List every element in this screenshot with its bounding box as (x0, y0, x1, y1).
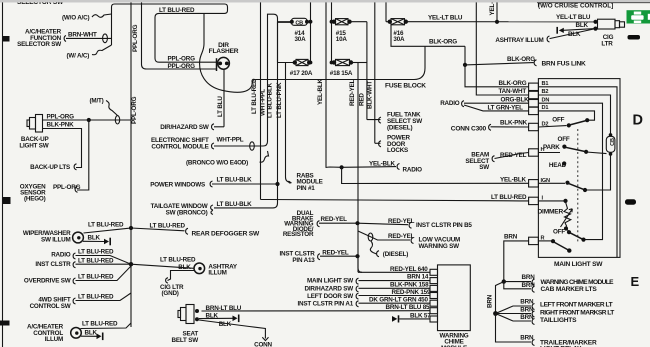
svg-text:(GND): (GND) (162, 290, 179, 297)
svg-text:BRN FUS LINK: BRN FUS LINK (542, 60, 587, 67)
(DIESEL) tap (370, 241, 408, 258)
svg-text:DK GRN-LT GRN 450: DK GRN-LT GRN 450 (369, 297, 428, 304)
pin IGN (529, 178, 550, 187)
dir/hazard sw (160, 124, 214, 131)
svg-text:BLK: BLK (219, 321, 232, 328)
pin H (529, 147, 545, 156)
pin B1 (529, 81, 549, 91)
node BLK-WHT bus (367, 2, 375, 143)
svg-text:RED-PNK 159: RED-PNK 159 (392, 289, 431, 296)
svg-text:SELECTOR SW: SELECTOR SW (17, 41, 61, 48)
fuse #14 30A label (295, 30, 307, 43)
node LT BLU-RED bus (251, 2, 261, 200)
svg-text:CONN C300: CONN C300 (451, 125, 487, 132)
fuse block outline (200, 13, 425, 92)
node RED-YEL bus (349, 63, 358, 273)
node RED bus (350, 22, 367, 119)
switch contact R (538, 239, 571, 253)
svg-text:RED-YEL: RED-YEL (349, 79, 356, 106)
svg-text:BRN-LT BLU: BRN-LT BLU (206, 305, 242, 312)
svg-text:RED-YEL: RED-YEL (322, 249, 349, 256)
wire power windows row (150, 176, 277, 188)
svg-text:POWER WINDOWS: POWER WINDOWS (150, 181, 205, 188)
svg-text:BLK: BLK (576, 22, 589, 29)
svg-text:D1: D1 (542, 105, 549, 111)
svg-text:LT BLU-RED: LT BLU-RED (78, 257, 114, 264)
node LT BLU-BLK bus (214, 22, 293, 208)
svg-text:DIMMER: DIMMER (538, 208, 564, 215)
circuit breaker CB (#14) (278, 18, 311, 26)
svg-text:BRN: BRN (504, 234, 518, 241)
svg-text:#18 15A: #18 15A (330, 70, 353, 77)
wire BLK seat belt to splice (199, 312, 240, 322)
pin chime 14 (430, 278, 438, 284)
pin chime 85 (430, 308, 438, 314)
svg-text:RED: RED (359, 93, 366, 106)
seat belt sw (172, 305, 199, 345)
svg-text:WARNING SW: WARNING SW (419, 243, 460, 250)
svg-text:(DIESEL): (DIESEL) (383, 251, 408, 258)
svg-text:BRN 14: BRN 14 (407, 274, 429, 281)
wire BLK-ORG to brn fus link (463, 46, 586, 67)
switch linkage (dashed) (577, 129, 579, 243)
wire inst clstr pin A13 row (280, 249, 358, 264)
svg-text:E: E (631, 274, 640, 289)
svg-text:ILLUM: ILLUM (45, 336, 63, 343)
svg-text:WARNING CHIME MODULE: WARNING CHIME MODULE (541, 279, 615, 286)
pin chime 640 (430, 269, 438, 275)
node YEL-BLK bus (317, 2, 326, 168)
wire IGN row (YEL-BLK) (342, 167, 529, 183)
svg-text:BLK: BLK (88, 235, 101, 242)
wire 4wd shift control sw row (30, 293, 131, 310)
fuse #17 20A (278, 59, 313, 76)
svg-text:OFF: OFF (553, 229, 565, 236)
fuse #15 10A (332, 19, 352, 43)
svg-text:FUSE BLOCK: FUSE BLOCK (385, 83, 426, 90)
svg-text:BACK-UP LTS: BACK-UP LTS (30, 164, 70, 171)
svg-text:BLK-PNK 158: BLK-PNK 158 (390, 282, 429, 289)
svg-text:RED-YEL: RED-YEL (388, 218, 415, 225)
svg-text:LT BLU-RED: LT BLU-RED (159, 7, 195, 14)
pin chime 159 (430, 293, 438, 299)
svg-text:BLK 57: BLK 57 (410, 312, 431, 319)
wire yel-blk to radio (326, 160, 422, 173)
svg-text:10A: 10A (336, 36, 348, 43)
node WHT-PPL bus (214, 14, 278, 146)
wire rear defogger sw row (84, 222, 260, 238)
svg-text:CONTROL MODULE: CONTROL MODULE (151, 144, 208, 151)
svg-text:BLK: BLK (568, 31, 581, 38)
lamp wiper/washer illum (23, 230, 84, 243)
svg-text:YEL-LT BLU: YEL-LT BLU (556, 14, 591, 21)
node junction back-up/ppl-org (87, 118, 91, 122)
wire PPL-ORG lower to flasher (142, 0, 217, 70)
svg-text:LEFT FRONT MARKER LT: LEFT FRONT MARKER LT (540, 302, 613, 309)
pin R (529, 236, 545, 245)
svg-text:LEFT DOOR SW: LEFT DOOR SW (307, 293, 353, 300)
svg-text:RED-YEL 640: RED-YEL 640 (390, 266, 428, 273)
svg-text:REAR DEFOGGER SW: REAR DEFOGGER SW (192, 230, 260, 237)
wire BRN to right front marker lt (496, 306, 615, 317)
wire to oxygen sensor (53, 120, 89, 192)
wire DK GRN-LT GRN 450 (298, 297, 431, 308)
svg-text:LT BLU-BLK: LT BLU-BLK (217, 176, 253, 183)
wire B2 row (TAN-WHT) (476, 0, 528, 95)
svg-text:(M/T): (M/T) (90, 98, 104, 105)
svg-text:PPL-ORG: PPL-ORG (132, 24, 139, 52)
wire B1 row (BLK-ORG) (465, 65, 529, 87)
warning chime module box (438, 265, 471, 347)
wire power door locks (375, 135, 411, 154)
svg-text:OFF: OFF (552, 117, 564, 124)
print button (627, 10, 650, 23)
svg-text:YEL-LT BLU: YEL-LT BLU (428, 14, 463, 21)
node LT BLU-PNK bus (276, 63, 292, 183)
wire D1 row (LT GRN-YEL) (464, 104, 529, 111)
svg-text:LT BLU-RED: LT BLU-RED (78, 273, 114, 280)
wire PPL-ORG from back-up sw (43, 113, 132, 124)
wire fuel tank select sw (367, 112, 422, 132)
svg-text:SW: SW (479, 164, 489, 171)
pin D1 (529, 105, 549, 114)
wire B1 internal (538, 87, 617, 258)
svg-text:INST CLSTR PIN B5: INST CLSTR PIN B5 (416, 222, 472, 229)
svg-text:BRN-WHT: BRN-WHT (68, 31, 97, 38)
svg-text:PIN #1: PIN #1 (297, 185, 316, 192)
oxygen sensor (HEGO) (20, 183, 46, 202)
svg-text:ASHTRAY ILLUM: ASHTRAY ILLUM (495, 37, 543, 44)
svg-text:LT BLU-RED: LT BLU-RED (88, 222, 124, 229)
svg-text:YEL-BLK: YEL-BLK (317, 78, 324, 105)
svg-text:BLK-ORG: BLK-ORG (499, 80, 527, 87)
svg-text:LOCKS: LOCKS (387, 147, 408, 154)
svg-text:(HEGO): (HEGO) (24, 196, 46, 203)
wire BRN to left front marker lt (496, 299, 613, 314)
svg-text:OFF: OFF (558, 136, 570, 143)
wire BRN-LT BLU 85 (from seat belt sw) (202, 304, 431, 311)
switch contact IGN (538, 181, 587, 193)
A/C/heater function selector sw (17, 29, 66, 49)
pin D2 (529, 122, 549, 131)
wire BRN to taillights (496, 314, 578, 325)
node junction B5 (355, 221, 359, 225)
svg-text:BRN: BRN (522, 282, 536, 289)
svg-text:BLK: BLK (206, 312, 219, 319)
dimmer rheostat (538, 199, 573, 231)
svg-text:LT BLU-RED: LT BLU-RED (78, 293, 114, 300)
wire BRN main vertical (487, 282, 504, 314)
wire YEL-LT BLU (406, 14, 596, 22)
node YEL- riser (489, 2, 499, 24)
wire DN row (ORG-BLK) (464, 96, 529, 103)
wire BLK-PNK 158 (305, 282, 430, 293)
wire D2 row (BLK-PNK) conn C300 (451, 120, 529, 133)
svg-text:LT BLU-RED: LT BLU-RED (78, 248, 114, 255)
wire LT BLU-RED labeled rail (155, 7, 217, 62)
wire BLK a/c heater to splice (81, 330, 104, 341)
wire BLK to splice (556, 22, 595, 34)
svg-text:(DIESEL): (DIESEL) (387, 124, 412, 131)
back-up lts (30, 164, 76, 171)
svg-text:LT BLU-BLK: LT BLU-BLK (267, 82, 274, 118)
svg-text:RADIO: RADIO (440, 100, 460, 107)
wire BRN from R pin (504, 234, 529, 282)
svg-text:BRN: BRN (520, 299, 534, 306)
switch contact D2/OFF (538, 117, 589, 128)
svg-text:BRN-LT BLU 85: BRN-LT BLU 85 (386, 304, 431, 311)
wire #15/#18 left riser (330, 2, 334, 64)
wire CB right riser (309, 2, 313, 64)
svg-text:RADIO: RADIO (403, 166, 423, 173)
svg-text:CONTROL SW: CONTROL SW (30, 303, 71, 310)
svg-text:LT BLU-RED: LT BLU-RED (160, 257, 196, 264)
svg-text:RIGHT FRONT MARKSR LT: RIGHT FRONT MARKSR LT (540, 310, 614, 317)
svg-text:MAIN LIGHT SW: MAIN LIGHT SW (307, 277, 353, 284)
wire inst clstr row (35, 257, 131, 268)
svg-text:PIN A13: PIN A13 (292, 257, 315, 264)
pin DN (529, 97, 550, 107)
svg-text:ORG-BLK: ORG-BLK (501, 96, 530, 103)
wire ashtray illum row (131, 257, 196, 269)
svg-text:B1: B1 (542, 81, 549, 87)
svg-text:LT BLU-RED: LT BLU-RED (82, 321, 118, 328)
wire B2 lower to IGN contact (586, 154, 611, 190)
svg-text:(BRONCO W/O E4OD): (BRONCO W/O E4OD) (186, 159, 248, 166)
svg-text:YEL-: YEL- (489, 2, 496, 16)
svg-text:WHT-PPL: WHT-PPL (217, 137, 244, 144)
svg-text:PARK: PARK (543, 144, 560, 151)
svg-text:(W/ A/C): (W/ A/C) (67, 53, 90, 60)
svg-text:TAILLIGHTS: TAILLIGHTS (540, 317, 577, 324)
svg-text:(W/O CRUISE CONTROL]: (W/O CRUISE CONTROL] (538, 2, 613, 9)
wire BRN-WHT (66, 31, 112, 42)
svg-text:INST CLSTR PIN A1: INST CLSTR PIN A1 (298, 301, 354, 308)
svg-text:RADIO: RADIO (51, 251, 71, 258)
beam select sw / H row (465, 152, 528, 172)
svg-text:BLK-ORG: BLK-ORG (429, 38, 457, 45)
svg-text:BLK-ORG: BLK-ORG (507, 56, 535, 63)
switch contact park/head (538, 136, 606, 169)
svg-text:FLASHER: FLASHER (209, 48, 239, 55)
node junction wiper row (129, 226, 133, 230)
svg-text:BLK-PNK: BLK-PNK (500, 120, 528, 127)
dual brake warning diode/resistor (283, 210, 314, 238)
cig ltr (593, 19, 624, 47)
svg-text:BELT SW: BELT SW (172, 337, 199, 344)
wire a/c heater illum row (81, 321, 132, 329)
svg-text:WHT-PPL: WHT-PPL (260, 89, 267, 116)
wire D1 internal (538, 111, 594, 120)
wire low vacuum warning sw (358, 231, 460, 250)
svg-text:PPL-ORG: PPL-ORG (168, 56, 196, 63)
svg-text:YEL-BLK: YEL-BLK (369, 160, 396, 167)
wire BRN to cab marker lts (504, 282, 598, 294)
svg-text:D: D (633, 113, 643, 129)
wire BLK-ORG from fuse block (391, 25, 465, 46)
node junction brn lower (493, 311, 498, 316)
svg-text:DN: DN (542, 97, 550, 103)
svg-text:LT BLU: LT BLU (217, 96, 224, 117)
(BRONCO W/O E4OD) tap (186, 151, 269, 166)
svg-text:MAIN LIGHT SW: MAIN LIGHT SW (554, 261, 603, 268)
svg-text:CB: CB (610, 138, 616, 146)
back-up light sw (19, 115, 48, 150)
svg-text:BLK-PNK: BLK-PNK (47, 122, 75, 129)
wire radio row (51, 248, 131, 264)
pin B2 (529, 89, 549, 99)
wire BLK from ashtray illum (495, 29, 595, 44)
svg-text:OVERDRIVE SW: OVERDRIVE SW (24, 277, 71, 284)
header note (W/O CRUISE CONTROL) (537, 2, 650, 9)
(W/ A/C) tap (67, 45, 112, 60)
svg-text:RED-YEL: RED-YEL (388, 233, 415, 240)
svg-text:30A: 30A (295, 36, 307, 43)
svg-text:DIR/HAZARD SW: DIR/HAZARD SW (160, 124, 209, 131)
svg-text:LT BLU-RED: LT BLU-RED (491, 194, 527, 201)
svg-text:BLK: BLK (178, 264, 191, 271)
svg-text:LT BLU-BLK: LT BLU-BLK (217, 201, 253, 208)
svg-text:BLK: BLK (85, 330, 98, 337)
wire BLK seat belt to conn (199, 320, 273, 347)
electronic shift control module (151, 137, 254, 151)
svg-text:PPL-ORG: PPL-ORG (131, 96, 138, 124)
node junction yel-blk (340, 165, 344, 169)
wire I row (LT BLU-RED) (261, 194, 529, 201)
wire BLK 57 (392, 312, 431, 322)
svg-text:SW ILLUM: SW ILLUM (41, 236, 71, 243)
rabs module pin #1 (297, 172, 323, 192)
wire BRN to warning chime module (504, 274, 614, 286)
node junction brn upper (502, 279, 506, 283)
(W/O A/C) tap (62, 14, 112, 22)
fuse #18 15A (330, 59, 367, 76)
main light sw body (538, 79, 620, 258)
wire RED-PNK 159 (307, 289, 431, 300)
svg-text:CB: CB (295, 20, 303, 26)
pin chime 158 (430, 285, 438, 291)
svg-text:YEL-BLK: YEL-BLK (500, 176, 527, 183)
svg-text:BRN: BRN (487, 294, 494, 308)
svg-text:LT BLU-RED: LT BLU-RED (150, 223, 186, 230)
node PPL-ORG bus (131, 0, 139, 327)
wire BLK cig ltr gnd (160, 264, 194, 297)
lamp a/c heater control illum (27, 324, 81, 343)
breaker CB internal (606, 133, 616, 156)
tailgate window sw (bronco) (151, 201, 253, 217)
wire BLK wiper to splice (83, 235, 111, 246)
svg-text:RESISTOR: RESISTOR (283, 231, 314, 238)
wire RED-YEL 640 (358, 256, 430, 273)
switch contact OFF lower (553, 229, 586, 242)
svg-text:SW (BRONCO): SW (BRONCO) (166, 210, 208, 217)
node junction lt blu-red distribution (129, 262, 133, 266)
svg-text:LT BLU-PNK: LT BLU-PNK (276, 82, 283, 118)
fuse #16 30A (386, 2, 408, 43)
node junction power windows (275, 182, 279, 186)
pin chime 450 (430, 300, 438, 306)
svg-text:RED-YEL: RED-YEL (321, 216, 348, 223)
wire riser to top rail (112, 4, 228, 45)
wire inst clstr pin B5 row (317, 216, 472, 229)
svg-text:ILLUM: ILLUM (208, 270, 226, 277)
svg-text:LTR: LTR (601, 40, 613, 47)
svg-text:LIGHT SW: LIGHT SW (19, 142, 48, 149)
node junction A13 (355, 254, 359, 258)
svg-text:LT GRN-YEL: LT GRN-YEL (488, 104, 524, 111)
wire BLK-PNK from back-up sw (43, 122, 82, 168)
svg-text:#17 20A: #17 20A (290, 70, 313, 77)
svg-text:B2: B2 (542, 89, 549, 95)
wire BRN 14 (307, 274, 430, 285)
svg-text:BRN: BRN (520, 335, 534, 342)
wire overdrive sw row (24, 266, 131, 284)
svg-text:TAN-WHT: TAN-WHT (499, 88, 527, 95)
wire B2 internal (538, 95, 610, 135)
svg-text:30A: 30A (393, 36, 405, 43)
wire BRN to trailer/marker light relay (496, 314, 597, 347)
svg-text:(W/O A/C): (W/O A/C) (62, 15, 89, 22)
(M/T) tap (90, 98, 118, 116)
selector sw (clipped top) (17, 0, 64, 6)
svg-text:BLK-WHT: BLK-WHT (367, 81, 374, 109)
dir flasher (209, 42, 239, 71)
pin chime 57 (430, 316, 438, 322)
lamp ashtray illum (194, 263, 238, 277)
wire DN internal (538, 103, 602, 239)
radio (DN/D1) (440, 100, 464, 107)
svg-text:DIR/HAZARD SW: DIR/HAZARD SW (305, 286, 354, 293)
svg-text:RED-YEL: RED-YEL (500, 152, 527, 159)
svg-text:INST CLSTR: INST CLSTR (35, 261, 71, 268)
svg-text:PPL-ORG: PPL-ORG (47, 113, 75, 120)
svg-text:CAB MARKER LTS: CAB MARKER LTS (541, 286, 598, 293)
pin I (529, 195, 544, 204)
wire LT BLU from flasher (214, 69, 224, 127)
